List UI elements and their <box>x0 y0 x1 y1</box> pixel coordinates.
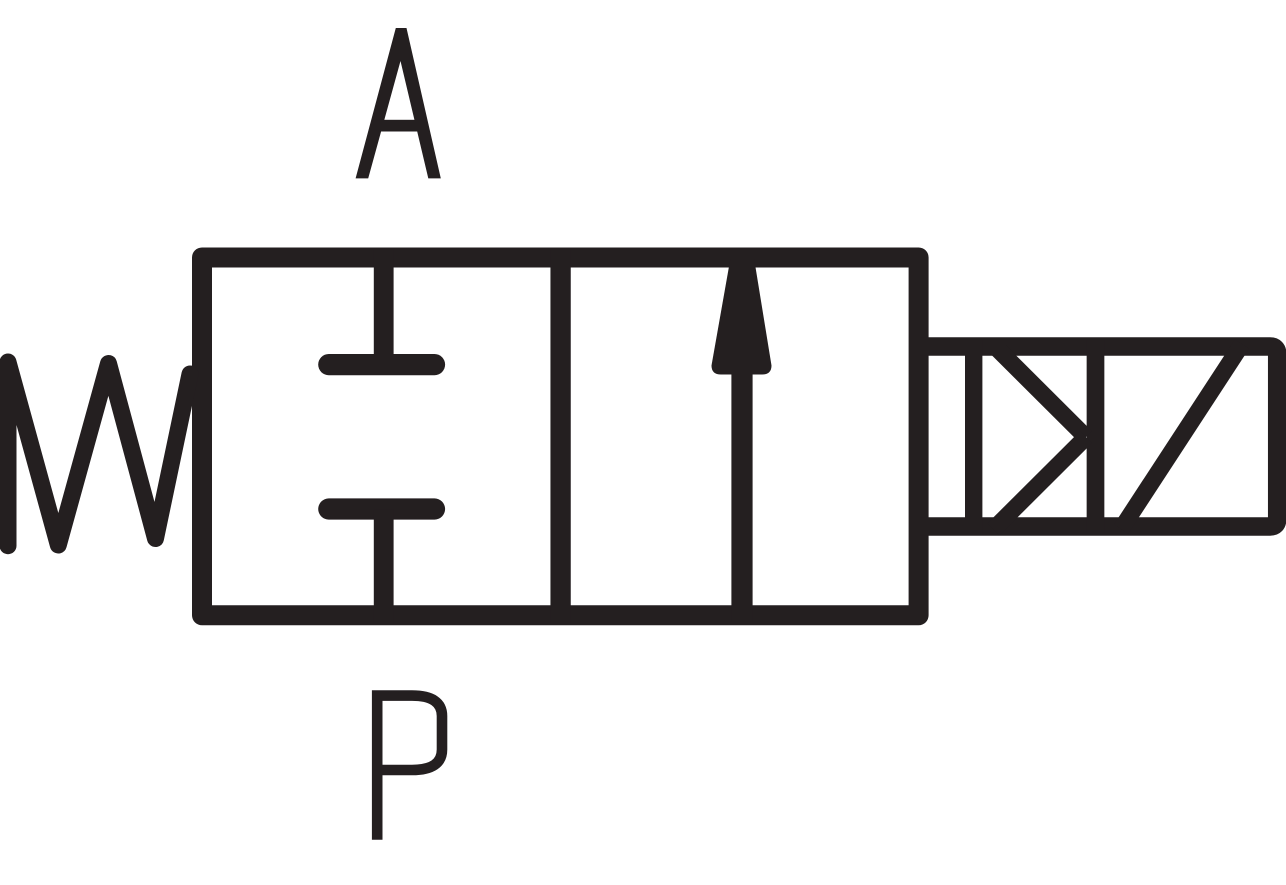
port label P <box>372 696 442 840</box>
return spring <box>8 362 190 546</box>
valve body frame (2-position envelope) <box>202 258 919 616</box>
solenoid frame <box>920 347 1277 527</box>
blocked port P stem <box>374 510 394 623</box>
flow arrow shaft (position 2) <box>731 371 752 622</box>
blocked port A seat bar <box>329 354 435 375</box>
port label A <box>356 28 441 178</box>
flow arrow head <box>712 258 772 375</box>
solenoid coil diagonal <box>1121 344 1242 529</box>
solenoid cell divider <box>1087 340 1105 533</box>
blocked port A stem (position 1) <box>374 250 394 364</box>
solenoid triangle lower diagonal <box>994 437 1087 529</box>
blocked port P seat bar <box>329 498 435 519</box>
position divider line <box>550 250 570 623</box>
solenoid triangle upper diagonal <box>993 344 1087 437</box>
solenoid left wall <box>965 340 982 533</box>
